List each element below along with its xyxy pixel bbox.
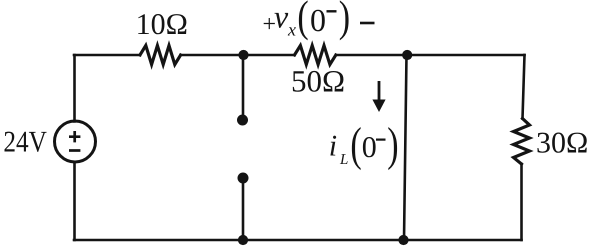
svg-text:): ) <box>387 119 398 171</box>
label vx(0-) : right parenthesis <box>339 0 350 41</box>
wire left side upper (top corner to source V1) <box>73 55 76 122</box>
voltage source V1 minus sign <box>69 149 80 152</box>
svg-text:x: x <box>287 19 296 39</box>
svg-text:0: 0 <box>362 131 377 164</box>
bottom junction dot under node A <box>238 235 248 245</box>
value label 50Ω <box>291 64 345 99</box>
wire inductor branch (node B down to bottom node) <box>404 55 407 240</box>
svg-text:L: L <box>339 152 348 168</box>
label iL : L subscript <box>339 152 348 168</box>
label iL : i italic <box>329 130 337 163</box>
svg-text:24V: 24V <box>3 126 47 159</box>
label iL(0-) : left parenthesis <box>350 119 361 171</box>
svg-text:v: v <box>274 0 289 35</box>
node B junction dot <box>402 50 412 60</box>
svg-text:10Ω: 10Ω <box>136 8 188 41</box>
wire middle branch upper (node A down to switch) <box>242 55 245 117</box>
wire middle branch lower (switch to bottom node) <box>242 181 245 240</box>
value label 24V <box>3 126 47 159</box>
resistor R1 10Ω zigzag <box>140 46 181 65</box>
wire right side upper (corner to R3) <box>523 55 525 119</box>
label iL(0-) : zero <box>362 131 377 164</box>
svg-text:50Ω: 50Ω <box>291 64 345 99</box>
label iL(0-) : right parenthesis <box>387 119 398 171</box>
node A junction dot <box>238 50 248 60</box>
voltage source V1 plus sign <box>69 131 80 142</box>
label vx polarity minus <box>360 22 375 25</box>
label vx(0-) : zero <box>310 2 326 38</box>
voltage source V1 circle <box>55 121 96 162</box>
wire left side lower (source V1 to bottom corner) <box>73 162 76 240</box>
svg-text:0: 0 <box>310 2 326 38</box>
bottom junction dot under node B <box>398 235 408 245</box>
svg-text:(: ( <box>350 119 361 171</box>
wire R2 to node B <box>336 54 407 57</box>
wire node A to R2 <box>243 54 295 57</box>
wire bottom segment <box>74 239 522 242</box>
value label 30Ω <box>536 126 588 159</box>
svg-text:30Ω: 30Ω <box>536 126 588 159</box>
current arrow iL direction <box>372 81 385 112</box>
svg-text:i: i <box>329 130 337 163</box>
switch S1 lower terminal dot <box>238 173 249 184</box>
svg-text:(: ( <box>297 0 308 41</box>
switch S1 upper terminal dot <box>237 115 248 126</box>
label vx(0-) : left parenthesis <box>297 0 308 41</box>
label vx(0-) : superscript minus <box>327 10 337 12</box>
label iL(0-) : superscript minus <box>376 139 386 141</box>
resistor R3 30Ω zigzag <box>514 119 530 165</box>
value label 10Ω <box>136 8 188 41</box>
label vx : x subscript <box>287 19 296 39</box>
wire top-middle segment (R1 to node A) <box>181 54 243 57</box>
wire right side lower (R3 to bottom corner) <box>520 164 523 240</box>
wire top-left segment <box>74 54 140 57</box>
svg-text:): ) <box>339 0 350 41</box>
label +vx : plus sign <box>263 11 277 37</box>
resistor R2 50Ω zigzag <box>295 46 336 65</box>
wire top-right segment (node B to corner) <box>407 54 525 57</box>
label vx : v italic <box>274 0 289 35</box>
